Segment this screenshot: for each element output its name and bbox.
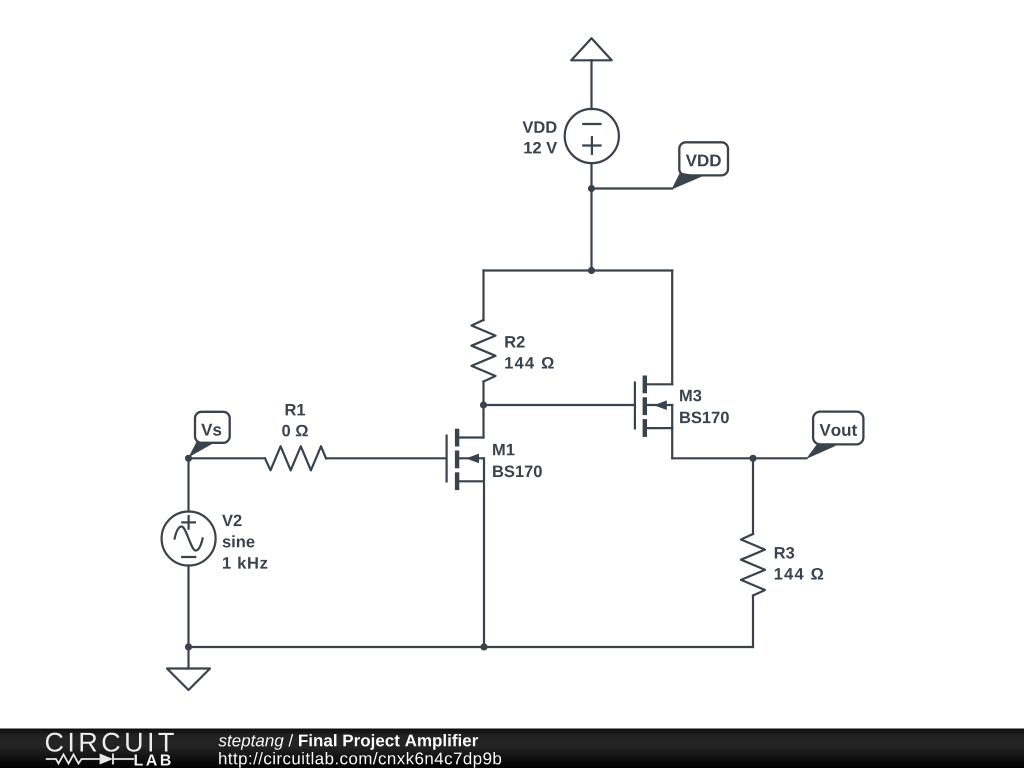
label M3 name xyxy=(680,390,701,402)
voltage source VDD xyxy=(565,109,619,163)
label V2 freq xyxy=(223,557,267,569)
footer title xyxy=(299,734,478,750)
wire xyxy=(484,269,673,271)
wire xyxy=(326,457,446,459)
node VDD xyxy=(588,185,595,192)
node ground xyxy=(185,643,192,650)
label R2 name xyxy=(505,336,524,348)
wire xyxy=(752,596,754,648)
wire Vout line xyxy=(672,457,806,459)
label V2 type xyxy=(223,535,255,547)
label M1 value xyxy=(493,466,542,478)
flag VDD xyxy=(672,142,729,189)
node source rail xyxy=(480,643,487,650)
wire xyxy=(482,382,484,406)
transistor M3 xyxy=(635,376,672,437)
label VDD source value xyxy=(524,142,557,154)
label flag Vs xyxy=(201,424,221,436)
node gate xyxy=(480,401,487,408)
voltage source V2 xyxy=(162,512,216,566)
label M1 name xyxy=(493,444,514,455)
transistor M1 xyxy=(447,429,484,490)
node Vout xyxy=(749,455,756,462)
resistor R2 xyxy=(472,320,496,382)
wire xyxy=(590,60,592,109)
wire bottom rail xyxy=(189,646,754,648)
label VDD source name xyxy=(523,121,557,132)
logo LAB xyxy=(135,755,171,766)
wire V2 top xyxy=(187,458,189,511)
wire xyxy=(483,458,485,647)
label R1 value xyxy=(282,425,308,437)
wire xyxy=(590,163,592,188)
wire V2 bottom xyxy=(187,566,189,648)
ground xyxy=(167,669,210,691)
flag Vs xyxy=(188,412,229,458)
wire xyxy=(484,404,634,406)
node top xyxy=(588,267,595,274)
label V2 name xyxy=(222,515,241,527)
power flag VDD triangle xyxy=(571,38,611,60)
label flag Vout xyxy=(820,424,858,436)
wire M3 source down xyxy=(671,405,673,458)
label flag VDD xyxy=(686,155,721,167)
wire to ground xyxy=(187,647,189,669)
flag Vout xyxy=(806,412,863,459)
wire xyxy=(752,458,754,534)
label R1 name xyxy=(286,404,306,415)
node Vs xyxy=(185,455,192,462)
footer slash xyxy=(288,734,293,747)
footer author xyxy=(219,735,284,750)
label R3 value xyxy=(775,568,824,580)
label M3 value xyxy=(680,412,729,424)
footer url xyxy=(219,752,501,768)
wire M3 drain up xyxy=(671,271,673,385)
resistor R3 xyxy=(741,534,765,596)
resistor R1 xyxy=(265,446,326,470)
wire xyxy=(482,271,484,321)
label R2 value xyxy=(505,357,554,369)
wire xyxy=(482,405,484,438)
label R3 name xyxy=(775,547,794,559)
logo CIRCUIT xyxy=(46,733,174,752)
wire xyxy=(590,189,592,271)
wire xyxy=(592,187,673,189)
wire Vs to R1 xyxy=(189,457,266,459)
logo squiggle xyxy=(46,754,134,765)
